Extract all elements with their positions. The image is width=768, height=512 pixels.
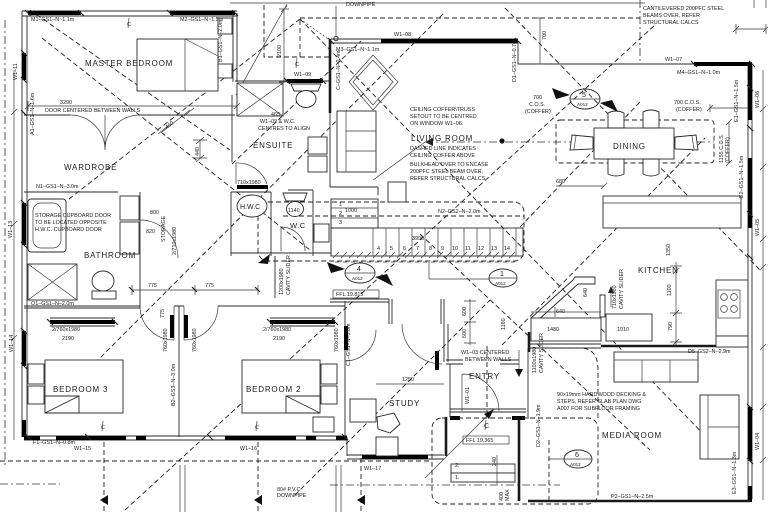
decking dashed outline [432,418,598,504]
dim 460 diagonal [162,110,190,132]
svg-text:E1–GS1–N–1.5m: E1–GS1–N–1.5m [734,79,740,122]
top right dim [736,0,766,34]
robe south wall [330,186,378,188]
hwc west wall [230,192,232,256]
svg-text:1100: 1100 [667,284,673,296]
svg-text:C: C [295,62,299,68]
svg-text:FFL 19.365: FFL 19.365 [466,438,493,444]
porch solid diagonal [425,409,494,478]
window W1-16 [225,436,296,440]
FFL boxes [333,290,509,444]
window W1-14 [22,331,26,366]
skylight diamond [349,55,398,110]
svg-text:H.W.C: H.W.C [240,204,260,211]
svg-text:6: 6 [403,246,406,252]
entry west wall [449,364,451,417]
window M2 [170,11,235,15]
corner connector dotted [300,19,331,41]
svg-text:FFL 19.815: FFL 19.815 [336,292,363,298]
svg-text:7: 7 [416,246,419,252]
svg-text:1480: 1480 [547,327,559,333]
ensuite east wall [329,113,331,187]
window M1 [28,11,81,15]
truss line L1b [42,38,310,250]
svg-text:M3–GS1–N~1.1m: M3–GS1–N~1.1m [336,47,380,53]
svg-text:M4–GS1–N–1.0m: M4–GS1–N–1.0m [677,70,721,76]
media couch top [614,352,698,382]
svg-text:W1–16: W1–16 [240,446,257,452]
dropper W1-15 [103,442,105,512]
fridge [716,336,748,347]
svg-text:13: 13 [491,246,497,252]
svg-text:DINING: DINING [613,142,646,151]
svg-text:C: C [101,425,105,431]
svg-text:W1–04: W1–04 [755,433,761,450]
svg-text:600: 600 [462,307,468,316]
dropper arrows [100,495,365,505]
porch steps [451,464,515,473]
svg-text:BETWEEN WALLS: BETWEEN WALLS [465,357,512,363]
svg-text:KITCHEN: KITCHEN [638,266,679,275]
storage shelves [120,196,139,220]
dropper W1-17 [360,458,362,512]
svg-text:CAVITY SLIDER: CAVITY SLIDER [286,255,292,295]
svg-text:BEDROOM 2: BEDROOM 2 [246,385,301,394]
bedside table bottom [218,64,232,78]
dining chair right [675,135,698,150]
svg-text:1250: 1250 [402,377,414,383]
hall south wall [330,299,389,302]
bed3 door leaf [170,315,174,338]
right exterior wall [748,64,752,501]
window W1-09 [287,79,323,83]
svg-text:M1–GS1–N~1.1m: M1–GS1–N~1.1m [31,17,75,23]
master east wall [233,13,237,82]
study east return [445,417,448,456]
living south boundary / stair wall [330,199,332,256]
svg-text:90x19mm HARDWOOD DECKING &: 90x19mm HARDWOOD DECKING & [557,392,646,398]
dining chair left [570,135,593,150]
svg-text:ENSUITE: ENSUITE [253,141,293,150]
svg-text:A012: A012 [570,462,581,467]
svg-text:E3–GS1–N–1.3m: E3–GS1–N–1.3m [732,451,738,494]
svg-text:775: 775 [160,309,166,318]
bathroom south wall [24,307,140,309]
truss line L3 skylight [232,41,361,164]
svg-text:2190: 2190 [273,336,285,342]
window W1-05 [748,158,752,228]
stair bottom hatch band [333,252,515,258]
NE kitchen-dining [502,138,705,345]
porch pier right [512,416,525,420]
window W1-04 [748,407,752,461]
svg-text:200PFC STEEL BEAM OVER,: 200PFC STEEL BEAM OVER, [410,169,484,175]
svg-text:680: 680 [556,179,565,185]
living couch [337,111,376,172]
bathroom east wall [139,258,141,308]
svg-text:1: 1 [339,202,342,208]
svg-text:12: 12 [478,246,484,252]
NE dining short [520,102,640,227]
window bottom right [748,486,752,502]
stair risers [373,228,516,256]
svg-text:5: 5 [582,92,586,99]
svg-text:CAVITY SLIDER: CAVITY SLIDER [619,269,625,309]
svg-text:1000: 1000 [345,208,357,214]
window W1-15 [56,436,126,440]
downpipe leader [335,6,337,36]
bedroom2 east wall [344,301,346,437]
stair coffer inner dashed [283,215,524,217]
cantilever dashdot vertical [639,0,641,63]
svg-text:REFER STRUCTURAL CALCS: REFER STRUCTURAL CALCS [410,176,486,182]
svg-text:A012: A012 [352,276,363,281]
window W1-06 [748,64,752,120]
bed2 side table [313,417,334,432]
stair landing [331,199,378,228]
bottom wall study [347,455,444,459]
cavity slider arrow [610,290,612,307]
wardrobe south wall [24,191,118,193]
W1-03 centreline dashed [486,346,488,412]
svg-text:9: 9 [441,246,444,252]
svg-text:1160: 1160 [501,318,507,330]
ensuite toilet [291,84,321,91]
study door leaf [435,351,439,370]
dim 2100 vertical [279,9,289,82]
svg-text:BEDROOM 3: BEDROOM 3 [53,385,108,394]
svg-text:1200x1980: 1200x1980 [279,268,285,295]
deck joist doubles [180,465,341,512]
svg-text:C: C [127,22,131,28]
top wall master bedroom [22,11,237,16]
dining chairs bottom [608,159,624,176]
overhang corner [264,5,330,57]
master bed [137,39,218,91]
dim 700 coffer vert [535,18,545,64]
svg-text:(COFFER): (COFFER) [725,137,731,163]
wc toilet [283,193,307,201]
svg-text:700: 700 [533,95,542,101]
svg-text:W1–13: W1–13 [8,221,14,238]
dining coffer dashed rect [556,120,714,163]
SE parallel right [505,8,760,270]
callout 1 leader [429,262,489,279]
svg-text:DOWNPIPE: DOWNPIPE [277,493,307,499]
bedside table top [218,18,232,34]
dim 680 line [556,183,607,189]
svg-text:LIVING ROOM: LIVING ROOM [411,134,473,143]
svg-text:D2–GS1–N–1.9m: D2–GS1–N–1.9m [536,404,542,447]
study door arc [402,324,442,364]
svg-text:W1–05: W1–05 [755,219,761,236]
bed3 door arc [140,306,174,340]
top wall W1-08 [331,39,518,43]
bathroom shower [28,264,77,300]
kitchen dim 640 [531,307,601,317]
svg-text:W1–03 CENTERED: W1–03 CENTERED [461,350,509,356]
bedroom robes [50,320,115,324]
media couch right [700,395,739,459]
kitchen tall unit [600,295,605,317]
svg-text:W.C: W.C [290,221,306,230]
media north wall [601,345,748,348]
roof hip solid [236,4,287,95]
svg-text:DOOR CENTERED BETWEEN WALLS: DOOR CENTERED BETWEEN WALLS [45,108,140,114]
NE long main [125,25,655,510]
svg-text:W1–06: W1–06 [755,91,761,108]
double doors master [70,115,140,150]
svg-text:STRUCTURAL CALCS: STRUCTURAL CALCS [643,20,699,26]
truss line master L1 [30,10,230,150]
svg-text:STORAGE: STORAGE [161,215,167,242]
hall jamb east [441,299,444,324]
coffer dim 700 right [710,104,748,112]
entry porch wall [450,409,526,412]
svg-text:2/760x1980: 2/760x1980 [52,327,80,333]
ensuite top wall [235,80,330,82]
dim 1250 study [376,383,444,385]
ensuite vanity [308,137,327,154]
svg-text:CENTRES TO ALIGN: CENTRES TO ALIGN [258,126,310,132]
svg-text:N1–GS1–N–3.0m: N1–GS1–N–3.0m [36,184,79,190]
svg-text:DASHED LINE INDICATES: DASHED LINE INDICATES [410,146,476,152]
svg-text:W1–09: W1–09 [294,72,311,78]
svg-text:STUDY: STUDY [389,399,420,408]
wc east wall [312,190,314,256]
svg-text:760x1980: 760x1980 [192,328,198,352]
bed2/bed3 divider [178,306,180,437]
entry north wall W1-03 [446,360,519,364]
coffer pointer dot leader [373,142,425,180]
coffee table [388,182,406,202]
robe east wall [377,187,379,195]
svg-text:5: 5 [390,246,393,252]
svg-text:790: 790 [668,322,674,331]
svg-text:1140: 1140 [288,208,300,214]
svg-text:820: 820 [146,229,155,235]
svg-text:W1–15: W1–15 [74,446,91,452]
porch pier left [450,416,460,420]
bed2 door arc [184,306,218,340]
svg-text:CEILING COFFER\TRUSS: CEILING COFFER\TRUSS [410,107,475,113]
step down study [346,437,348,456]
svg-text:2/760x1980: 2/760x1980 [263,327,291,333]
valley SE long [300,19,717,448]
svg-text:3: 3 [339,220,342,226]
bed 2 [242,360,320,413]
dining chairs top [608,111,624,128]
corridor south wall [231,252,331,254]
svg-text:SETOUT TO BE CENTRED: SETOUT TO BE CENTRED [410,114,477,120]
overhang dashed top [300,17,640,19]
kitchen dim line 1100/790 [670,262,682,345]
bottom wall corner darks [24,436,347,440]
svg-text:BEAMS OVER, REFER: BEAMS OVER, REFER [643,13,700,19]
kitchen bench A [531,318,601,341]
svg-text:2190: 2190 [62,336,74,342]
svg-text:B2–GS3–N–3.0m: B2–GS3–N–3.0m [171,363,177,406]
ensuite door arc [236,163,267,184]
coffer corner arrow [258,254,270,264]
svg-text:D1–GS1–N–0.7m: D1–GS1–N–0.7m [512,39,518,82]
bottom dashed eave [0,460,432,462]
master south wall with double door [24,114,235,116]
svg-text:2100: 2100 [277,45,283,57]
study east wall [444,324,448,362]
wc door [281,227,305,251]
ensuite NE corner post [329,39,332,113]
svg-text:3290: 3290 [60,100,72,106]
svg-text:(COFFER): (COFFER) [525,109,551,115]
svg-text:F1–GS1–N–0.8m: F1–GS1–N–0.8m [33,440,75,446]
dining 1155 dim line [728,122,730,163]
svg-text:C1–GS1–N–3.0m: C1–GS1–N–3.0m [346,323,352,366]
svg-text:W1–07: W1–07 [665,57,682,63]
stair coffer dashed rect [258,202,524,261]
kitchen angled nook wall [531,277,595,322]
cavity slider pocket [274,256,276,298]
svg-text:2.: 2. [455,463,460,469]
svg-text:W1–17: W1–17 [364,466,381,472]
svg-text:440: 440 [195,147,201,156]
svg-text:1350: 1350 [666,244,672,256]
svg-text:STORAGE CUPBOARD DOOR: STORAGE CUPBOARD DOOR [35,213,111,219]
svg-text:775: 775 [148,283,157,289]
svg-text:A012: A012 [577,102,588,107]
svg-text:TO BE LOCATED OPPOSITE: TO BE LOCATED OPPOSITE [35,220,107,226]
svg-text:B1–GS1–N–2.0m: B1–GS1–N–2.0m [218,19,224,62]
bath tub [28,199,66,252]
bathroom toilet [92,271,114,291]
svg-text:465: 465 [271,112,280,118]
svg-text:(COFFER): (COFFER) [676,107,702,113]
porch dim ticks [496,455,498,484]
svg-text:CANTILEVERED 200PFC STEEL: CANTILEVERED 200PFC STEEL [643,6,724,12]
study chair [377,413,400,433]
svg-text:P2–GS1–N–2.5m: P2–GS1–N–2.5m [611,494,654,500]
media west wall [518,419,521,501]
svg-text:W1–14: W1–14 [9,335,15,352]
svg-text:4: 4 [357,266,361,273]
hwc circle [237,195,267,217]
svg-text:D5–GS2–N–2.9m: D5–GS2–N–2.9m [688,349,731,355]
bed2 door leaf [184,315,188,338]
window W1-11 [22,53,26,80]
svg-text:240: 240 [492,457,498,466]
linen sliding door [237,185,268,189]
svg-text:8: 8 [429,246,432,252]
callout 6 [548,450,592,468]
svg-text:11: 11 [465,246,471,252]
svg-text:14: 14 [504,246,510,252]
hall jamb west [389,299,392,324]
storage east wall [139,192,141,258]
bottom dashdot [0,484,560,485]
wc north jamb [288,189,313,191]
NE mid-left [95,12,445,363]
kitchen bench B [606,314,652,341]
svg-text:640: 640 [583,288,589,297]
right margin dim line [762,70,764,500]
dim 775 bedroom3 [132,285,258,295]
study top door arc [345,330,376,361]
bed 3 [45,360,123,413]
bedrooms north wall [24,305,345,307]
svg-text:MAX: MAX [505,489,511,501]
kitchen wall counter [716,280,748,336]
svg-text:BATHROOM: BATHROOM [84,251,136,260]
stair main run [331,228,523,256]
dining centreline [425,141,714,143]
kitchen island bench E2 [603,196,741,228]
dim 3290 master doors [28,101,237,111]
left exterior wall [22,11,27,437]
svg-text:710x1980: 710x1980 [612,285,618,309]
entry door [462,374,499,411]
svg-text:ENTRY: ENTRY [469,372,500,381]
left margin ticks [13,70,15,440]
svg-text:3990: 3990 [412,236,424,242]
dining table [594,128,674,159]
svg-text:CAVITY SLIDER: CAVITY SLIDER [539,333,545,373]
dropper W1-16 [257,442,259,512]
svg-text:MEDIA ROOM: MEDIA ROOM [602,431,662,440]
svg-text:6: 6 [575,452,579,459]
svg-text:C–GS1–N–2.4m: C–GS1–N–2.4m [336,50,342,90]
window W1-17 [362,455,428,459]
svg-text:W1–09 & W.C.: W1–09 & W.C. [260,119,295,125]
svg-text:A1–GS1–N–1.6m: A1–GS1–N–1.6m [30,92,36,135]
svg-text:A007 FOR SUBFLOOR FRAMING: A007 FOR SUBFLOOR FRAMING [557,406,640,412]
truss line L2 valley [60,19,300,206]
svg-text:N2–GS2–N–2.0m: N2–GS2–N–2.0m [438,209,481,215]
study cabinet [376,437,398,456]
callout 4 [327,262,393,286]
svg-text:WARDROBE: WARDROBE [64,163,117,172]
svg-text:H.W.C. CUPBOARD DOOR: H.W.C. CUPBOARD DOOR [35,227,102,233]
top boundary line [230,2,645,4]
svg-text:1100x1980: 1100x1980 [532,347,538,373]
svg-text:800: 800 [150,210,159,216]
bathroom door arc [140,220,178,258]
svg-text:710x1980: 710x1980 [237,180,261,186]
svg-text:760x1980: 760x1980 [334,328,340,352]
svg-text:A012: A012 [495,281,506,286]
hall north wall segment [231,191,271,193]
study desk [350,399,376,422]
svg-text:4: 4 [377,246,380,252]
svg-text:W1–11: W1–11 [13,63,19,80]
hob [718,290,740,318]
svg-text:CEILING COFFER ABOVE: CEILING COFFER ABOVE [410,153,475,159]
decking east dashed [545,348,598,418]
svg-text:W1–01: W1–01 [465,387,471,404]
svg-text:640: 640 [556,309,565,315]
NE parallel study [295,300,490,495]
svg-text:600: 600 [462,329,468,338]
svg-text:1.: 1. [455,475,460,481]
dim 440 vertical [193,140,207,158]
window W1-07 / M4 [694,62,752,66]
bottom wall bedrooms [24,436,347,440]
entry east cavity slider wall [527,348,529,419]
svg-text:MASTER BEDROOM: MASTER BEDROOM [85,59,173,68]
svg-text:C.O.S.: C.O.S. [529,102,545,108]
svg-text:E2–GS1–N–1.5m: E2–GS1–N–1.5m [739,155,745,198]
svg-text:O1–GS1–N–2.0m: O1–GS1–N–2.0m [31,301,74,307]
ensuite shower [237,83,283,116]
